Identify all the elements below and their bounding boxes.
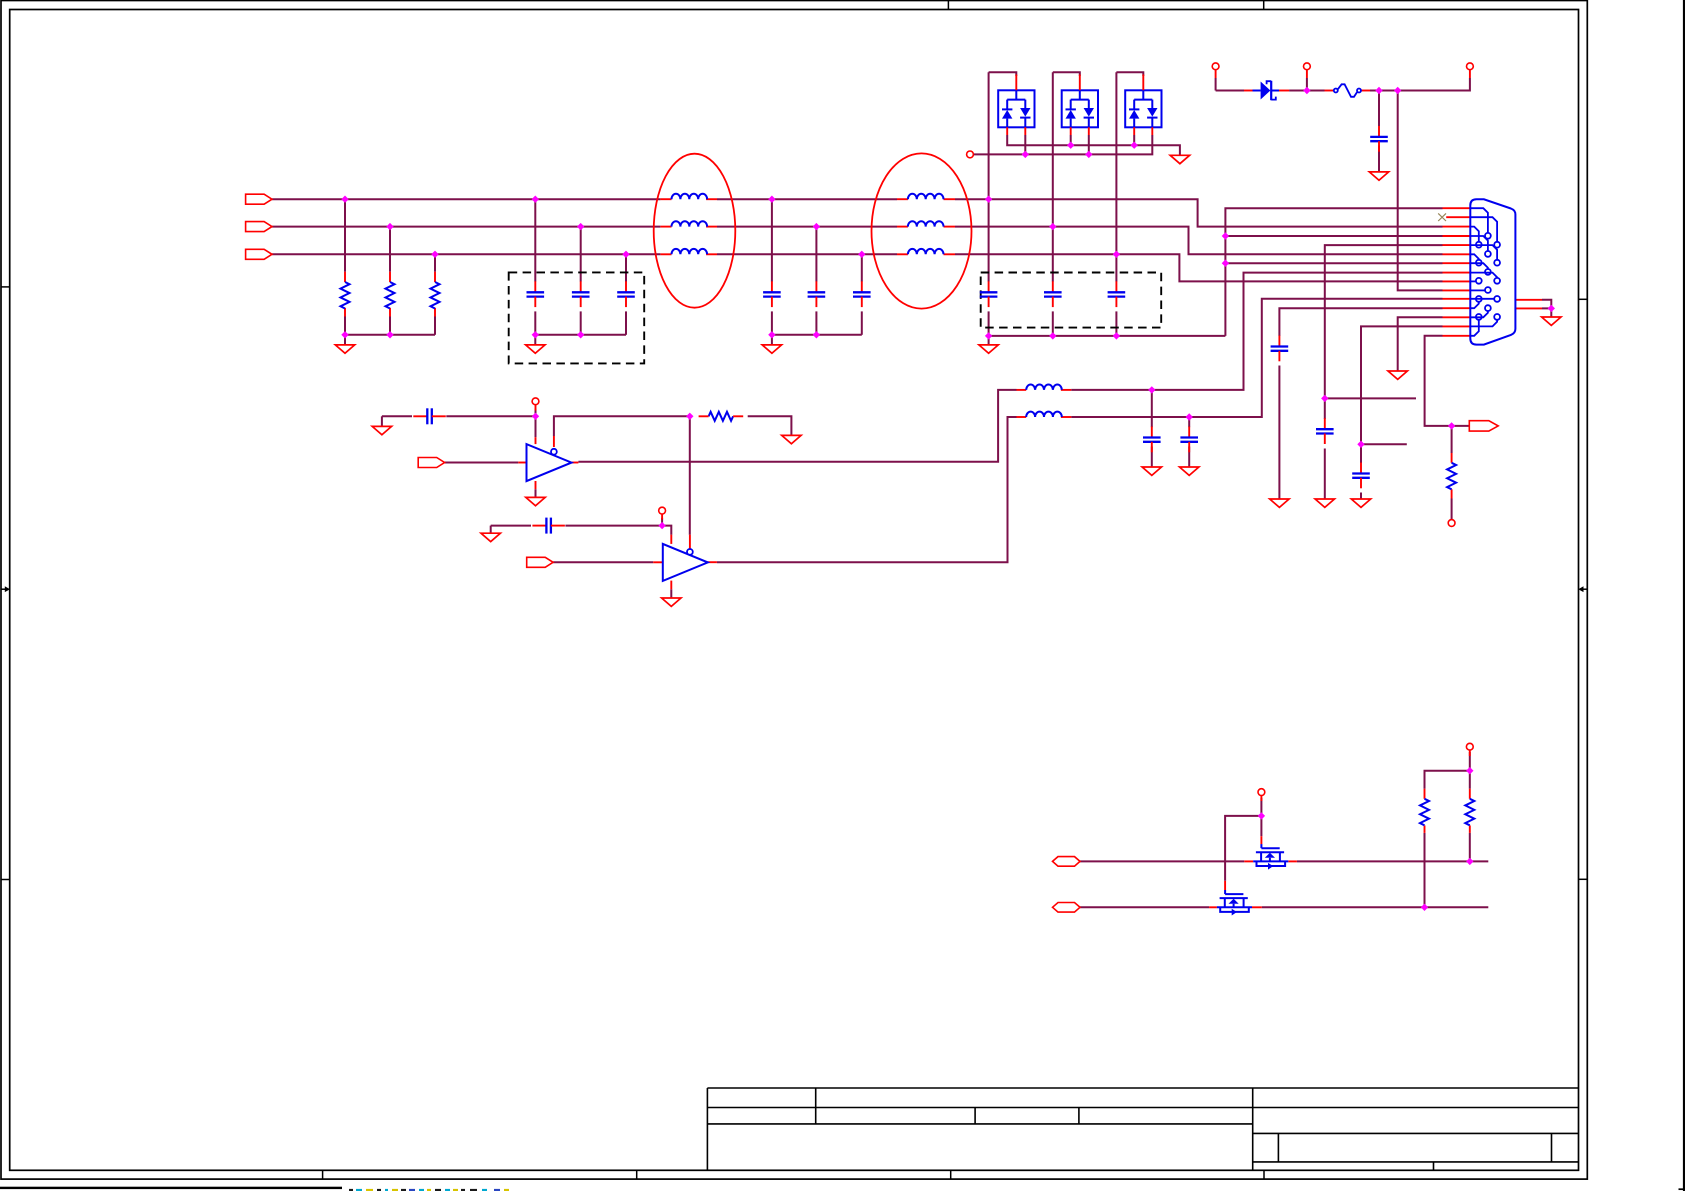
inductor L2a [908,194,944,199]
wire C mid drop 2 [815,227,817,282]
wire TVS bus B [973,135,1152,154]
misc red stubs [1451,453,1453,463]
wire pin14 net [1361,326,1443,463]
zone tick right 2 [1579,878,1588,880]
TVS D1 [998,90,1034,127]
wire coil1 cap stem [1151,390,1153,427]
wire C bank1 bottom bus [535,334,626,336]
wire C bank2 ground bus [989,335,1226,337]
connector J1 pin traces [1470,208,1488,233]
zone tick right 1 [1579,298,1588,300]
input port CON2 [246,222,272,232]
resistor R7 [1465,799,1474,826]
wire coil2 cap stem [1188,417,1190,427]
ground C14 [1180,467,1199,475]
TVS D2 [1062,90,1098,127]
ground R4 [782,435,801,443]
ground pin13 [1388,371,1407,379]
wire scl line [1080,906,1209,908]
capacitor C16 [1278,336,1280,347]
ground C10 [1369,172,1388,180]
capacitor C4 [771,281,773,292]
filter ellipse L2 [872,153,972,308]
terminal R5 [1448,520,1455,527]
zener diode D4 [1261,82,1271,100]
wire C bank1 drop 2 [580,227,582,282]
resistor R1 [341,282,350,308]
ground U1 bottom [526,497,545,505]
zone tick left 1 [1,286,10,288]
ground U2 cap [481,533,500,541]
wire sense resistor stem [1451,426,1453,453]
right page edge line [1683,0,1685,1191]
red coil stubs [1017,389,1027,391]
wire pin8 net [1071,273,1442,390]
wire TVS bus A [1007,135,1180,155]
capacitor C8 [1052,281,1054,292]
inductor L1a [671,194,707,199]
wire pin13 net [1398,317,1443,371]
wire C mid drop 1 [771,199,773,281]
capacitor C5 [815,281,817,292]
input port CON3 [246,249,272,259]
wire opamp1 term stem [535,409,537,438]
wire 24V to pin10 [1398,91,1443,291]
bottom partial rule [0,1187,342,1189]
zone tick top 1 [947,1,949,10]
wire phase bus 3 [272,253,660,255]
capacitor C2 [580,281,582,292]
wire opamp1 cap row [382,415,412,417]
ground R bank [335,345,354,353]
wire C bank1 drop 1 [534,199,536,281]
wire opamp1 to opamp2 bubble [689,416,691,534]
wire 24V input row [1215,78,1217,91]
input port CON1 [246,194,272,204]
wire C mid bottom bus [772,334,862,336]
red inductor/resistor stubs [660,198,671,200]
resistor R5 [1447,463,1456,489]
transistor Q2 [1224,890,1226,894]
capacitor C10 filter [1378,126,1380,137]
terminal TVS bus B [967,151,974,158]
inductor L3 [1026,385,1062,390]
resistor R4 [709,412,733,421]
wire opamp1 input [445,462,519,464]
fuse F1 [1334,89,1338,93]
wire sda line [1080,860,1244,862]
wire pullup top [1469,752,1471,789]
ground TVS bus A [1170,155,1189,163]
resistor R6 [1420,799,1429,826]
power row red stubs [1244,90,1253,92]
inductor L4 [1026,412,1062,417]
inductor L2c [908,249,944,254]
input port CON5 [527,557,553,567]
wire pin11 net [1071,299,1442,417]
connector J1 pin circles [1485,233,1491,239]
ground U2 bottom [662,598,681,606]
wire C bank1 drop 3 [625,254,627,281]
page edge bottom tick [1679,1188,1685,1190]
capacitor C15 [1324,418,1326,429]
filter ellipse L1 [654,154,736,308]
terminal T2 [1304,63,1311,70]
junction dots [341,196,348,203]
capacitor C14 [1188,427,1190,438]
wire R bank bottom bus [345,334,435,336]
terminal U1 [532,398,539,405]
resistor R3 [431,282,440,308]
ground C bank2 [979,345,998,353]
capacitor C1 [534,281,536,292]
output port CON6 [1469,421,1498,431]
center arrow right border [1583,588,1588,590]
transistor Q1 [1260,844,1262,848]
dashed box C bank2 [981,273,1161,328]
inductor L2b [908,221,944,226]
terminal U2 [659,507,666,514]
wire R bank drop 3 [434,254,436,271]
wire filter cap stem [1378,91,1380,127]
ground C mid [762,345,781,353]
wire opamp1 bottom [535,489,537,497]
ground C13 [1142,467,1161,475]
wire TVS/C bank2 vertical 2 [1052,72,1054,281]
terminal T3 [1467,63,1474,70]
ground U1 cap [372,426,391,434]
input port CON4 [418,458,444,468]
inductor L1b [671,221,707,226]
dashed box C bank1 [509,272,645,363]
wire C mid drop 3 [861,254,863,281]
wire R bank drop 1 [344,199,346,272]
wire pin15 net [1425,336,1470,426]
capacitor C7 [988,281,990,292]
op-amp U1 [527,444,572,481]
capacitor C9 [1115,281,1117,292]
wire pin5 net [1325,245,1443,419]
ground C15 [1315,499,1334,507]
inductor L1c [671,249,707,254]
capacitor C3 [625,281,627,292]
terminal pullup [1466,743,1473,750]
wire opamp2 input [553,561,653,563]
resistor R2 [386,282,395,308]
capacitor C12 [532,525,546,527]
ground C16 [1270,499,1289,507]
wire terminal2 stem [1306,78,1308,91]
wire opamp2 cap row [491,525,531,527]
wire phase bus 1 [272,198,660,200]
zone tick top 2 [1263,1,1265,10]
zone tick bottom 3 [950,1170,952,1179]
wire opamp1 fb [554,416,690,436]
mosfet/pullup red stubs [1244,860,1253,862]
ground C17 [1351,499,1370,507]
wire TVS/C bank2 vertical 1 [988,72,990,281]
wire R bank drop 2 [389,227,391,272]
zone tick bottom 1 [322,1170,324,1179]
ground C bank1 [526,345,545,353]
wire TVS/C bank2 vertical 3 [1115,72,1117,281]
wire DB15 gnd net [1225,208,1442,336]
terminal T1 [1212,63,1219,70]
no-connect X pin2 [1438,213,1446,221]
wire opamp2 bottom [670,589,672,598]
capacitor C6 [861,281,863,292]
wire opamp2 term stem [661,518,663,526]
bottom cut-off text fragments [349,1189,353,1191]
connector J1 DB15 shell [1470,199,1515,344]
wire gate supply [1260,798,1262,836]
wire DB15 shield [1542,300,1551,309]
bidir port P2 [1053,903,1081,913]
zone tick bottom 4 [1263,1170,1265,1179]
wire pin12 net [1279,308,1442,336]
zone tick bottom 2 [636,1170,638,1179]
capacitor C17 [1360,463,1362,474]
DB15 red pin stubs [1443,207,1471,209]
wire phase bus 2 [272,226,660,228]
TVS D3 [1125,90,1161,127]
ground DB15 shield [1542,317,1561,325]
op-amp U2 [663,544,708,581]
capacitor C11 [413,415,427,417]
title block [707,1087,1578,1089]
center arrow left border [1,588,6,590]
capacitor C13 [1151,427,1153,438]
terminal gate supply [1258,789,1265,796]
zone tick left 2 [1,879,10,881]
bidir port P1 [1053,857,1081,867]
wire pullup bottoms [1424,833,1426,907]
opamp red pin stubs [518,462,526,464]
